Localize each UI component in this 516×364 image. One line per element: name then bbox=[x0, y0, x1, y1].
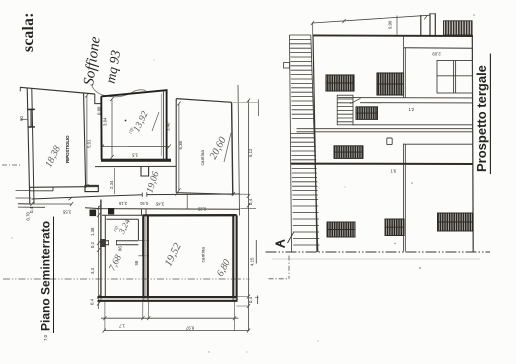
big room left wall double bbox=[145, 217, 147, 299]
svg-text:0,91: 0,91 bbox=[139, 201, 148, 206]
svg-text:0,4: 0,4 bbox=[248, 296, 253, 303]
stair ladder left bbox=[290, 35, 320, 252]
R2 bottom wall (dark band) bbox=[101, 159, 171, 162]
door threshold lines between rooms bbox=[138, 240, 148, 256]
R2 interior vertical dim right bbox=[160, 94, 162, 157]
svg-text:1'6: 1'6 bbox=[391, 169, 397, 174]
svg-text:19,06: 19,06 bbox=[144, 170, 161, 194]
svg-text:2,09: 2,09 bbox=[432, 52, 441, 57]
plan top boundary line (R1 over gap) bbox=[20, 87, 95, 94]
svg-text:3,25: 3,25 bbox=[197, 207, 206, 212]
faint horizontal connector bbox=[233, 102, 259, 104]
lower line under R2 band bbox=[95, 165, 176, 167]
left dim under R1: line with ticks bbox=[30, 202, 73, 206]
lower-left outer wall double bbox=[100, 200, 102, 302]
svg-text:98: 98 bbox=[134, 260, 139, 265]
section dash-dot line through plan bbox=[3, 278, 250, 280]
svg-text:6,38: 6,38 bbox=[178, 141, 183, 150]
R3 right edge bbox=[232, 102, 233, 195]
left margin dash segment bbox=[2, 164, 20, 166]
window W6 bbox=[385, 219, 404, 236]
ground dash-dot line bbox=[266, 251, 491, 253]
fascia lines bbox=[353, 124, 474, 126]
svg-text:18,38: 18,38 bbox=[43, 144, 63, 169]
window W1 upper-left (shutters) bbox=[326, 75, 354, 91]
section marker A bbox=[276, 240, 285, 247]
svg-text:1,7: 1,7 bbox=[118, 324, 125, 329]
bottom dimension line 2 bbox=[103, 329, 251, 333]
R2 interior horizontal dim bbox=[101, 145, 171, 149]
tick at left end of top line bbox=[19, 87, 21, 91]
room R1 bottom wall upper line bbox=[30, 186, 98, 189]
room R2 (rip. 13,92) thick outline bbox=[101, 90, 166, 159]
svg-text:Piano Seminterrato: Piano Seminterrato bbox=[39, 221, 53, 331]
big room (cantina 19,52) top wall line bbox=[143, 214, 237, 216]
window W4 grid bbox=[334, 146, 363, 159]
R2 interior vertical dim left bbox=[110, 97, 113, 159]
small square vent bbox=[387, 138, 392, 145]
svg-text:86: 86 bbox=[118, 246, 123, 251]
svg-text:RIPOSTIGLIO: RIPOSTIGLIO bbox=[65, 135, 70, 163]
R2 right wall inner line bbox=[162, 91, 164, 159]
mid lines right of stairs bbox=[338, 97, 473, 99]
roof top line bbox=[313, 34, 473, 37]
big room right wall double bbox=[234, 217, 236, 299]
underline of title bbox=[489, 54, 491, 175]
underline of title bbox=[53, 217, 55, 334]
small room right wall bbox=[138, 215, 142, 240]
svg-text:3,5: 3,5 bbox=[131, 153, 138, 158]
window symbol on R1 left wall bbox=[28, 109, 35, 127]
svg-text:4,15: 4,15 bbox=[250, 257, 255, 266]
svg-text:cantina: cantina bbox=[201, 247, 207, 263]
flourish slash bbox=[224, 133, 231, 162]
facade left edge bbox=[313, 35, 317, 252]
handwriting flourish leader curve bbox=[92, 86, 146, 97]
vertical double line x404 upper bbox=[403, 48, 405, 98]
black square threshold 2 bbox=[108, 208, 114, 214]
stair arrow diagonal bbox=[350, 98, 361, 103]
room R3 (cantina 20,60) top edge bbox=[176, 99, 231, 103]
svg-text:0,4: 0,4 bbox=[29, 206, 34, 213]
door bump below R2 bbox=[141, 167, 149, 176]
plan bottom wall double line bbox=[99, 298, 237, 300]
room R1 right wall bbox=[84, 94, 86, 187]
wall pier block right of R1 bottom bbox=[85, 185, 98, 191]
window W7 bbox=[438, 213, 474, 231]
dim extension above facade corner bbox=[312, 23, 314, 35]
svg-text:3,55: 3,55 bbox=[62, 210, 71, 215]
svg-text:90: 90 bbox=[19, 116, 24, 121]
small room bottom wall with door gap bbox=[105, 241, 138, 245]
ground-floor top line bbox=[291, 163, 473, 165]
small box left of ladder bbox=[284, 63, 290, 69]
window W3 grid bbox=[356, 107, 378, 120]
handwritten annotation top (two rotated cursive words) bbox=[81, 35, 123, 86]
dim vertical small (2,34) bbox=[113, 168, 115, 194]
hatched parapet block top right bbox=[444, 21, 473, 35]
svg-text:0,2: 0,2 bbox=[90, 241, 95, 248]
svg-text:0,70: 0,70 bbox=[26, 212, 31, 221]
R1 interior dim line in gap bbox=[85, 94, 88, 189]
door jamb verticals at big room left bbox=[142, 209, 147, 216]
svg-text:5,91: 5,91 bbox=[87, 139, 92, 148]
small room (rip. 3,24) top wall bbox=[102, 215, 143, 219]
corridor bottom line bbox=[18, 204, 240, 210]
window W5 bbox=[327, 222, 355, 237]
room R1 left wall outer bbox=[27, 88, 30, 204]
svg-text:0,4: 0,4 bbox=[90, 298, 95, 305]
vertical double x404 lower bbox=[403, 144, 405, 252]
right dimension line of plan bbox=[248, 100, 250, 331]
R3 bottom edge bbox=[176, 193, 232, 195]
room R1 bottom wall lower line (left block) bbox=[30, 187, 53, 191]
extension lines plan to dim bbox=[235, 194, 256, 306]
left exterior dim column bbox=[97, 206, 100, 309]
svg-text:20,60: 20,60 bbox=[208, 135, 229, 162]
svg-text:cantina: cantina bbox=[200, 150, 206, 166]
aux verticals near top-right of plan bbox=[238, 85, 240, 216]
4-pane window top right bbox=[437, 61, 473, 94]
faint ghost line below ground bbox=[272, 258, 480, 260]
svg-text:1'2: 1'2 bbox=[409, 107, 415, 112]
R3 left edge bbox=[175, 99, 177, 193]
svg-text:0,4: 0,4 bbox=[90, 208, 95, 215]
section marker diagonal bbox=[288, 233, 294, 244]
svg-text:2,34: 2,34 bbox=[109, 180, 114, 189]
wall between 7,68 and 19,52 lower part bbox=[142, 240, 145, 297]
line y144 right part bbox=[404, 143, 473, 145]
corridor top line bbox=[32, 194, 241, 199]
corridor divider tick bbox=[186, 194, 188, 209]
svg-text:3,40: 3,40 bbox=[165, 122, 170, 131]
svg-text:3,45: 3,45 bbox=[155, 202, 164, 207]
room point marker bbox=[125, 120, 127, 122]
facade right edge bbox=[471, 36, 474, 252]
window W2 upper-mid (shutters) bbox=[377, 73, 404, 95]
svg-text:19,52: 19,52 bbox=[162, 241, 184, 269]
svg-text:13,92: 13,92 bbox=[131, 109, 150, 133]
bottom dimension line 1 bbox=[101, 317, 238, 319]
svg-text:3,15: 3,15 bbox=[118, 201, 127, 206]
dim extension mid bbox=[396, 16, 398, 35]
small staircase block bbox=[337, 95, 353, 125]
dark window on lower-left wall bbox=[100, 239, 106, 247]
svg-text:0,4: 0,4 bbox=[248, 198, 253, 205]
svg-text:3,3: 3,3 bbox=[90, 267, 95, 274]
black square threshold 1 bbox=[90, 210, 97, 217]
svg-text:6,12: 6,12 bbox=[248, 148, 253, 157]
room R1 left wall inner bbox=[32, 89, 34, 204]
notch between R1 and R2 bbox=[95, 94, 101, 104]
title "scala" top-left bbox=[20, 12, 37, 52]
corridor door break ticks bbox=[142, 192, 147, 197]
chimney pipes bbox=[421, 14, 436, 35]
svg-text:Soffione: Soffione bbox=[81, 35, 104, 86]
svg-text:3,94: 3,94 bbox=[103, 117, 108, 126]
top dimension line bbox=[313, 15, 431, 23]
svg-text:9,06: 9,06 bbox=[388, 20, 393, 29]
stray scan specks bbox=[394, 243, 395, 244]
section line vertical below A bbox=[288, 256, 290, 279]
svg-text:scala:: scala: bbox=[20, 12, 37, 52]
section line horizontal below A bbox=[269, 278, 290, 280]
handwritten slash flourish bbox=[152, 112, 159, 131]
bottom dim extension verticals bbox=[105, 302, 235, 332]
left margin extension lines bbox=[16, 191, 32, 199]
svg-text:8,97: 8,97 bbox=[185, 326, 194, 331]
tick at 0,90 label bbox=[21, 118, 28, 120]
parapet band second line right part bbox=[404, 47, 473, 49]
R3 interior dim line bbox=[177, 102, 180, 193]
svg-text:6,80: 6,80 bbox=[215, 258, 233, 279]
svg-text:mq 93: mq 93 bbox=[103, 49, 124, 85]
svg-text:1,38: 1,38 bbox=[90, 227, 95, 236]
svg-text:7,68: 7,68 bbox=[108, 253, 124, 273]
svg-text:Prospetto tergale: Prospetto tergale bbox=[474, 65, 489, 172]
svg-text:7,0: 7,0 bbox=[43, 334, 48, 341]
